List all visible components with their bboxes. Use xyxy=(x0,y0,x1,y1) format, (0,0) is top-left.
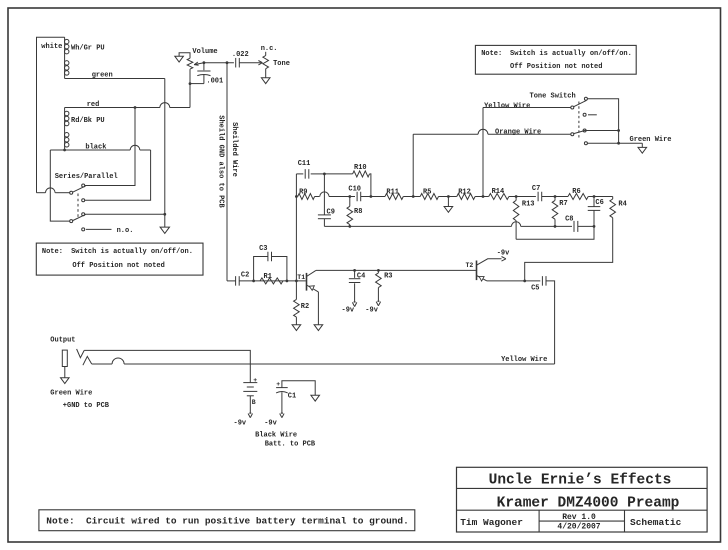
svg-text:Switch is actually on/off/on.: Switch is actually on/off/on. xyxy=(510,50,632,58)
svg-text:Rd/Bk PU: Rd/Bk PU xyxy=(71,117,105,125)
svg-text:Tim Wagoner: Tim Wagoner xyxy=(460,517,523,528)
svg-text:Sheild GND also to PCB: Sheild GND also to PCB xyxy=(217,115,225,208)
svg-text:Series/Parallel: Series/Parallel xyxy=(55,173,118,181)
svg-text:Sheilded Wire: Sheilded Wire xyxy=(230,122,238,177)
svg-text:Note: Circuit wired to run po: Note: Circuit wired to run positive batt… xyxy=(46,515,408,526)
svg-text:Note:: Note: xyxy=(481,50,502,58)
svg-text:-9v: -9v xyxy=(365,306,378,314)
svg-text:+GND to PCB: +GND to PCB xyxy=(63,402,110,410)
svg-text:-9v: -9v xyxy=(234,419,247,427)
svg-text:R2: R2 xyxy=(301,303,309,311)
svg-text:C10: C10 xyxy=(348,186,361,194)
svg-text:B: B xyxy=(252,399,256,406)
svg-text:Orange Wire: Orange Wire xyxy=(495,129,541,137)
svg-text:R8: R8 xyxy=(354,208,362,216)
svg-text:R11: R11 xyxy=(386,188,399,196)
svg-text:Off Position not noted: Off Position not noted xyxy=(72,262,164,270)
svg-text:C4: C4 xyxy=(357,272,365,280)
svg-text:Rev 1.0: Rev 1.0 xyxy=(562,513,596,522)
svg-text:4/20/2007: 4/20/2007 xyxy=(557,523,600,532)
svg-text:C1: C1 xyxy=(288,392,296,400)
svg-text:Yellow Wire: Yellow Wire xyxy=(484,102,530,110)
svg-text:Green Wire: Green Wire xyxy=(50,389,92,397)
svg-text:Uncle Ernie’s Effects: Uncle Ernie’s Effects xyxy=(489,472,672,488)
svg-text:Off Position not noted: Off Position not noted xyxy=(510,63,602,71)
svg-text:Volume: Volume xyxy=(192,48,217,56)
svg-text:C7: C7 xyxy=(532,185,540,193)
svg-text:R7: R7 xyxy=(559,200,567,208)
svg-text:-9v: -9v xyxy=(342,306,355,314)
svg-text:C11: C11 xyxy=(298,160,311,168)
svg-text:.001: .001 xyxy=(206,77,223,85)
svg-text:C9: C9 xyxy=(327,208,335,216)
svg-text:C5: C5 xyxy=(531,284,539,292)
svg-text:Output: Output xyxy=(50,337,75,345)
svg-text:Black Wire: Black Wire xyxy=(255,431,297,439)
svg-text:.022: .022 xyxy=(232,51,249,59)
svg-text:Note:: Note: xyxy=(42,248,63,256)
svg-text:+: + xyxy=(276,381,280,388)
svg-text:Schematic: Schematic xyxy=(630,517,682,528)
svg-text:R1: R1 xyxy=(264,273,272,281)
svg-text:R13: R13 xyxy=(522,201,535,209)
svg-text:C8: C8 xyxy=(565,215,573,223)
svg-text:C2: C2 xyxy=(241,272,249,280)
svg-text:n.c.: n.c. xyxy=(261,45,278,53)
svg-text:Tone: Tone xyxy=(273,60,290,68)
svg-text:R5: R5 xyxy=(423,188,431,196)
svg-text:T2: T2 xyxy=(466,262,474,269)
svg-text:-9v: -9v xyxy=(497,250,510,258)
svg-text:Batt. to PCB: Batt. to PCB xyxy=(265,441,316,449)
svg-text:Kramer DMZ4000 Preamp: Kramer DMZ4000 Preamp xyxy=(497,496,680,512)
svg-text:green: green xyxy=(92,72,113,80)
svg-text:Wh/Gr PU: Wh/Gr PU xyxy=(71,45,105,53)
svg-text:R4: R4 xyxy=(618,201,626,209)
svg-text:R6: R6 xyxy=(572,188,580,196)
svg-text:C6: C6 xyxy=(595,199,603,207)
svg-text:Tone Switch: Tone Switch xyxy=(530,93,576,101)
svg-text:n.o.: n.o. xyxy=(117,227,134,235)
svg-text:white: white xyxy=(41,43,62,51)
svg-text:+: + xyxy=(253,377,257,384)
svg-text:R12: R12 xyxy=(458,188,471,196)
svg-text:R9: R9 xyxy=(299,188,307,196)
svg-text:-9v: -9v xyxy=(264,419,277,427)
svg-text:Green Wire: Green Wire xyxy=(630,136,672,144)
svg-text:Switch is actually on/off/on.: Switch is actually on/off/on. xyxy=(71,248,193,256)
svg-text:C3: C3 xyxy=(259,245,267,253)
svg-text:R3: R3 xyxy=(384,273,392,281)
svg-text:R10: R10 xyxy=(354,164,367,172)
svg-text:T1: T1 xyxy=(297,274,305,281)
svg-text:Yellow Wire: Yellow Wire xyxy=(501,356,547,364)
svg-text:R14: R14 xyxy=(492,188,505,196)
